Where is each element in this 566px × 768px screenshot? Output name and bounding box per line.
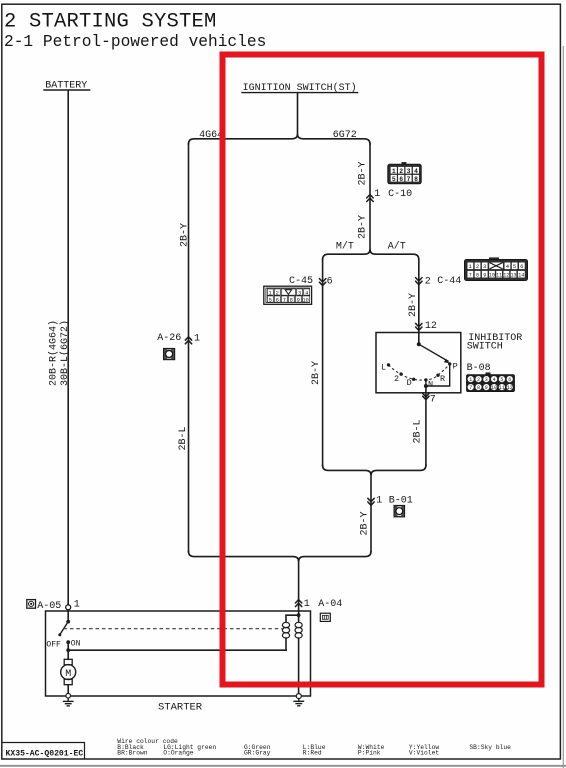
junction bracket M/T A/T merge bbox=[323, 465, 426, 475]
svg-text:A/T: A/T bbox=[388, 240, 406, 252]
contact R bbox=[436, 374, 439, 377]
mechanical link dashed bbox=[64, 628, 283, 630]
svg-text:5: 5 bbox=[392, 176, 396, 183]
connector A-26 arrow pin 1 bbox=[185, 337, 191, 344]
svg-text:M/T: M/T bbox=[336, 240, 354, 252]
svg-text:N: N bbox=[428, 380, 433, 390]
svg-text:GR:Gray: GR:Gray bbox=[244, 750, 271, 757]
wire 4G64 branch vertical bbox=[188, 144, 190, 552]
svg-text:L: L bbox=[381, 363, 386, 373]
wire pull-in coil bottom bbox=[285, 638, 287, 650]
svg-text:6: 6 bbox=[520, 263, 523, 270]
inhibitor switch box B-08 bbox=[376, 333, 461, 393]
svg-text:2B-Y: 2B-Y bbox=[360, 511, 371, 535]
solenoid hold-in coil bbox=[295, 622, 302, 638]
svg-text:2B-Y: 2B-Y bbox=[311, 361, 322, 385]
svg-text:10: 10 bbox=[489, 272, 495, 278]
svg-text:STARTER: STARTER bbox=[158, 702, 203, 714]
svg-text:2B-Y: 2B-Y bbox=[358, 215, 369, 239]
connector C-44 pinbox bbox=[465, 257, 528, 280]
node BATTERY label bbox=[43, 81, 90, 92]
svg-text:2: 2 bbox=[425, 276, 431, 287]
node IGNITION SWITCH(ST) label bbox=[241, 82, 358, 94]
svg-text:SB:Sky blue: SB:Sky blue bbox=[469, 744, 511, 751]
wire 6G72 branch vertical bbox=[369, 144, 371, 250]
solenoid ground circle bbox=[296, 694, 301, 699]
ground motor bbox=[63, 698, 74, 706]
svg-text:4: 4 bbox=[493, 377, 496, 383]
svg-text:2B-Y: 2B-Y bbox=[408, 293, 419, 317]
svg-text:30B-L(6G72): 30B-L(6G72) bbox=[59, 320, 71, 386]
wire motor to ground bbox=[67, 685, 69, 694]
wire starter stem vertical bbox=[298, 561, 300, 611]
svg-text:8: 8 bbox=[477, 385, 480, 391]
svg-text:P:Pink: P:Pink bbox=[358, 750, 381, 757]
svg-text:12: 12 bbox=[507, 385, 513, 391]
svg-text:1: 1 bbox=[74, 600, 80, 611]
svg-text:8: 8 bbox=[476, 272, 479, 278]
svg-text:2: 2 bbox=[399, 168, 403, 175]
junction bracket M/T A/T split bbox=[323, 249, 419, 259]
contact P bbox=[448, 362, 451, 365]
motor M bbox=[61, 659, 76, 684]
svg-text:3: 3 bbox=[298, 290, 301, 296]
svg-text:7: 7 bbox=[430, 395, 436, 406]
wire ON contact to motor bbox=[67, 642, 69, 659]
svg-text:1: 1 bbox=[269, 290, 272, 296]
svg-text:2B-Y: 2B-Y bbox=[180, 223, 191, 247]
wire hold-in coil to ground bbox=[298, 638, 300, 694]
node junction dot bbox=[417, 342, 421, 346]
drawing number box bbox=[2, 743, 85, 760]
connector A-05 pin circle bbox=[66, 605, 71, 610]
svg-text:1: 1 bbox=[376, 496, 382, 507]
svg-text:11: 11 bbox=[496, 272, 502, 278]
connector B-01 symbol bbox=[394, 505, 405, 517]
svg-text:7: 7 bbox=[283, 297, 286, 303]
motor ground circle bbox=[66, 693, 71, 698]
svg-text:6: 6 bbox=[276, 297, 279, 303]
svg-text:9: 9 bbox=[485, 385, 488, 391]
svg-text:D: D bbox=[407, 378, 412, 388]
node switch pivot dot bbox=[66, 620, 70, 624]
svg-text:C-10: C-10 bbox=[388, 189, 412, 200]
svg-text:4: 4 bbox=[305, 290, 308, 296]
svg-text:2 STARTING SYSTEM: 2 STARTING SYSTEM bbox=[4, 10, 217, 33]
svg-text:10: 10 bbox=[302, 297, 308, 303]
svg-text:12: 12 bbox=[503, 272, 509, 278]
svg-text:2B-L: 2B-L bbox=[413, 419, 424, 443]
solenoid pull-in coil bbox=[282, 622, 289, 638]
svg-text:1: 1 bbox=[304, 599, 310, 610]
svg-text:11: 11 bbox=[499, 385, 505, 391]
svg-text:9: 9 bbox=[297, 297, 300, 303]
connector C-10 pinbox bbox=[388, 162, 421, 184]
svg-text:12: 12 bbox=[425, 321, 437, 332]
svg-text:A-04: A-04 bbox=[318, 599, 342, 610]
svg-text:P: P bbox=[453, 361, 458, 371]
connector C-10 arrow pin 1 bbox=[367, 195, 373, 202]
svg-text:9: 9 bbox=[483, 272, 486, 278]
svg-text:7: 7 bbox=[469, 272, 472, 278]
contact D bbox=[412, 378, 415, 381]
svg-text:2: 2 bbox=[394, 374, 399, 384]
svg-text:5: 5 bbox=[269, 297, 272, 303]
svg-text:ON: ON bbox=[71, 640, 81, 649]
node ON contact dot bbox=[66, 640, 70, 644]
node junction dot to pull-in coil bbox=[66, 648, 70, 652]
svg-text:BR:Brown: BR:Brown bbox=[117, 750, 147, 757]
svg-text:6: 6 bbox=[508, 377, 511, 383]
svg-text:C-44: C-44 bbox=[437, 276, 461, 287]
svg-text:1: 1 bbox=[469, 377, 472, 383]
svg-text:3: 3 bbox=[407, 168, 411, 175]
svg-text:2: 2 bbox=[476, 263, 479, 270]
wire B-01 stem vertical bbox=[370, 475, 372, 552]
svg-text:10: 10 bbox=[491, 385, 497, 391]
svg-text:6: 6 bbox=[327, 276, 333, 287]
svg-text:3: 3 bbox=[483, 263, 486, 270]
red highlight rectangle bbox=[223, 55, 542, 685]
switch rotor arm to P bbox=[419, 344, 450, 363]
wire battery vertical bbox=[67, 91, 69, 605]
pin 7 arrow bbox=[423, 393, 429, 399]
inhibitor switch arrow pin 12 bbox=[416, 323, 422, 330]
svg-text:8: 8 bbox=[290, 297, 293, 303]
junction bracket bottom merge bbox=[189, 551, 372, 561]
svg-text:1: 1 bbox=[194, 334, 200, 345]
svg-text:R:Red: R:Red bbox=[303, 750, 322, 757]
wire to hold-in coil top bbox=[298, 615, 300, 622]
svg-text:B-01: B-01 bbox=[389, 496, 413, 507]
connector B-08 pinbox bbox=[467, 372, 515, 391]
svg-text:1: 1 bbox=[392, 168, 396, 175]
connector C-44 arrow pin 2 bbox=[416, 278, 422, 285]
svg-text:13: 13 bbox=[510, 272, 516, 278]
connector A-05 symbol bbox=[27, 600, 36, 609]
svg-text:OFF: OFF bbox=[46, 641, 61, 650]
svg-text:4: 4 bbox=[414, 168, 418, 175]
connector C-45 pinbox bbox=[264, 286, 312, 304]
svg-text:M: M bbox=[65, 669, 71, 680]
starter switch blade bbox=[60, 622, 68, 635]
svg-text:1: 1 bbox=[374, 189, 380, 200]
connector C-45 arrow pin 6 bbox=[319, 279, 325, 286]
connector A-04 arrow pin 1 bbox=[295, 600, 301, 607]
wire A/T branch vertical bbox=[418, 259, 420, 344]
svg-text:2: 2 bbox=[276, 290, 279, 296]
connector A-26 symbol bbox=[164, 348, 175, 359]
junction bracket 4G64/6G72 split bbox=[189, 134, 371, 144]
wire A-04 into box bbox=[298, 611, 300, 615]
svg-text:A-26: A-26 bbox=[157, 333, 181, 344]
starter box bbox=[46, 611, 311, 696]
node junction dot bbox=[424, 384, 428, 388]
switch contact arc dashed bbox=[389, 364, 450, 380]
svg-text:2: 2 bbox=[477, 377, 480, 383]
svg-text:SWITCH: SWITCH bbox=[467, 341, 503, 352]
svg-text:KX35-AC-Q0201-EC: KX35-AC-Q0201-EC bbox=[6, 750, 84, 759]
scan edge gray vertical line bbox=[562, 46, 564, 768]
inhibitor switch name bbox=[467, 333, 522, 353]
svg-text:6: 6 bbox=[399, 176, 403, 183]
svg-text:R: R bbox=[440, 374, 445, 384]
svg-text:2-1 Petrol-powered vehicles: 2-1 Petrol-powered vehicles bbox=[4, 33, 266, 51]
svg-text:6G72: 6G72 bbox=[333, 130, 357, 141]
connector A-04 symbol bbox=[320, 613, 330, 621]
wire M/T branch vertical bbox=[322, 259, 324, 466]
svg-text:5: 5 bbox=[500, 377, 503, 383]
svg-text:7: 7 bbox=[407, 176, 411, 183]
svg-text:5: 5 bbox=[513, 263, 516, 270]
svg-text:14: 14 bbox=[518, 272, 524, 278]
contact L bbox=[387, 363, 390, 366]
svg-text:O:Orange: O:Orange bbox=[163, 750, 193, 757]
node solenoid junction dot bbox=[297, 613, 301, 617]
svg-text:2B-Y: 2B-Y bbox=[358, 161, 369, 185]
svg-text:B-08: B-08 bbox=[467, 363, 491, 374]
scan edge gray bottom line bbox=[0, 765, 566, 767]
contact N bbox=[424, 378, 427, 381]
svg-text:A-05: A-05 bbox=[37, 601, 61, 612]
svg-text:V:Violet: V:Violet bbox=[409, 750, 439, 757]
wire A-05 into box bbox=[67, 610, 69, 622]
svg-text:8: 8 bbox=[414, 176, 418, 183]
svg-text:7: 7 bbox=[469, 385, 472, 391]
wire inhibitor output vertical bbox=[425, 386, 427, 466]
svg-text:20B-R(4G64): 20B-R(4G64) bbox=[48, 320, 60, 386]
ground solenoid bbox=[293, 699, 304, 706]
wire pull-in coil link horizontal bbox=[68, 649, 286, 651]
svg-text:3: 3 bbox=[485, 377, 488, 383]
svg-text:2B-L: 2B-L bbox=[178, 426, 189, 450]
wire P to N output bbox=[426, 364, 450, 386]
legend wire colour code bbox=[117, 738, 511, 756]
contact 2 bbox=[399, 372, 402, 375]
connector B-01 arrow pin 1 bbox=[368, 498, 374, 505]
wire ignition stem bbox=[297, 93, 299, 134]
wire to pull-in coil top bbox=[286, 615, 299, 622]
